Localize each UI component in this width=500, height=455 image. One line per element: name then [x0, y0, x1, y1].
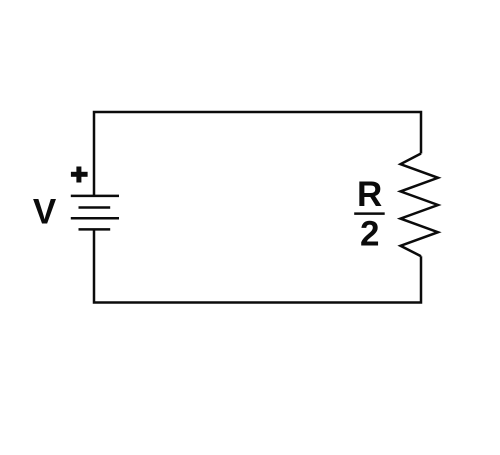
wire: top horizontal from battery top to resistor top [94, 112, 421, 196]
wire: bottom horizontal from resistor bottom to battery bottom [94, 229, 421, 302]
svg-text:R: R [357, 175, 382, 214]
fraction bar of R/2 [354, 212, 385, 215]
battery V: short plate 2 [79, 206, 111, 209]
svg-text:V: V [33, 192, 57, 231]
battery V: long plate 3 [71, 217, 119, 220]
battery V: short plate 4 (bottom, negative) [79, 228, 111, 231]
resistor R/2 zigzag [401, 154, 439, 257]
plus polarity mark [71, 167, 88, 183]
svg-text:2: 2 [360, 215, 379, 254]
battery V: long plate 1 (top, positive) [71, 195, 119, 198]
